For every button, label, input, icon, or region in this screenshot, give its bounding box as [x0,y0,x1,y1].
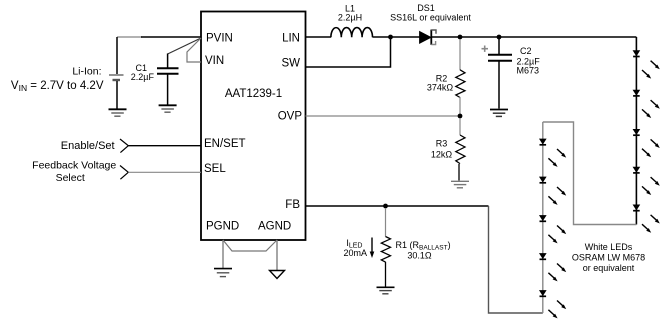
wire: battery top to PVIN (right part) [141,36,201,38]
svg-text:White LEDs: White LEDs [585,242,633,252]
resistor R2 [456,39,465,116]
LED D7 [540,177,567,205]
wire: FB horizontal [306,205,489,207]
wire: LIN to inductor [306,36,332,38]
ground (battery) [109,109,127,116]
LED D5 [633,205,660,233]
svg-text:FB: FB [285,199,300,211]
resistor R1 [381,208,390,287]
node junction dot OVP/R2/R3 [458,114,463,119]
svg-text:C2: C2 [520,46,532,56]
LED D10 [540,291,567,319]
svg-text:Li-Ion:: Li-Ion: [72,66,101,78]
svg-text:2.2µF: 2.2µF [131,72,155,82]
svg-text:AGND: AGND [258,221,291,233]
wire: EN/SET [128,145,201,147]
node: input chevron Enable/Set [120,139,128,153]
wire: battery vertical upper [116,37,118,74]
plus sign for C2 [482,46,489,52]
wire: OVP to R2/R3 junction [306,115,461,117]
ground (C2) [490,110,508,117]
LED D8 [540,216,567,244]
node junction dot FB/R1 [383,204,388,209]
svg-text:20mA: 20mA [343,248,367,258]
svg-text:EN/SET: EN/SET [204,138,246,150]
svg-text:PGND: PGND [206,221,239,233]
svg-text:PVIN: PVIN [206,33,233,45]
svg-text:SEL: SEL [204,163,226,175]
svg-text:OSRAM LW M678: OSRAM LW M678 [572,253,645,263]
wire: C1 bottom vertical [167,75,169,105]
svg-text:VIN: VIN [205,55,224,67]
capacitor C1 plates [157,67,179,69]
resistor R3 [456,118,465,181]
battery B1 Li-Ion plates [109,74,124,76]
node junction dot at R2 top [458,35,463,40]
LED string middle: wire down [542,122,544,313]
node: input chevron Feedback Voltage Select [120,166,128,180]
wire: PVIN to VIN connector [187,38,201,62]
svg-text:LIN: LIN [282,33,300,45]
ground (AGND analog triangle) [270,271,285,279]
svg-text:Select: Select [56,172,85,184]
wire: FB vertical down [489,206,543,313]
capacitor C2 [488,39,512,109]
wire: PGND-AGND connector bus [223,240,277,251]
wire: inductor to diode [373,36,420,38]
svg-text:30.1Ω: 30.1Ω [407,251,432,261]
ground (R1) [377,287,395,294]
ground (C1) [159,105,177,112]
wire: diode to LED string (top rail) [432,36,636,38]
svg-text:or equivalent: or equivalent [583,263,635,273]
svg-text:SW: SW [281,58,300,70]
svg-text:M673: M673 [517,66,540,76]
svg-text:Feedback Voltage: Feedback Voltage [32,160,116,172]
svg-text:12kΩ: 12kΩ [431,150,453,160]
IC U1 AAT1239-1 boost converter [201,12,306,241]
wire: battery vertical lower [116,81,118,109]
LED string right: wire down [635,37,637,225]
node junction dot at C2 top [497,35,502,40]
node junction dot at L1/SW [388,35,393,40]
LED D4 [633,167,660,195]
wire: SEL [128,171,201,173]
wire: PGND lead [222,240,224,268]
wire: right string return to middle string [543,122,637,225]
wire: SW to junction [306,37,391,67]
svg-text:374kΩ: 374kΩ [427,83,454,93]
ground (PGND) [214,269,232,277]
LED D2 [633,90,660,118]
ground (R3) [451,181,469,188]
wire: AGND lead [276,240,278,271]
LED D1 [633,51,660,79]
svg-text:DS1: DS1 [417,3,435,13]
wire: battery top to PVIN [117,36,142,38]
wire: C1 top vertical [167,54,169,68]
LED D3 [633,129,660,157]
svg-text:2.2µH: 2.2µH [338,13,362,23]
svg-text:SS16L or equivalent: SS16L or equivalent [390,13,471,23]
svg-text:Enable/Set: Enable/Set [61,140,115,152]
arrow ILED current [370,238,375,259]
svg-text:R3: R3 [436,139,448,149]
svg-text:OVP: OVP [278,111,303,123]
diode DS1 (Schottky) [420,30,436,45]
inductor L1 [331,28,373,38]
LED D6 [540,139,567,167]
LED D9 [540,254,567,282]
wire: PVIN to C1 diagonal [168,38,201,54]
svg-text:AAT1239-1: AAT1239-1 [225,88,282,100]
